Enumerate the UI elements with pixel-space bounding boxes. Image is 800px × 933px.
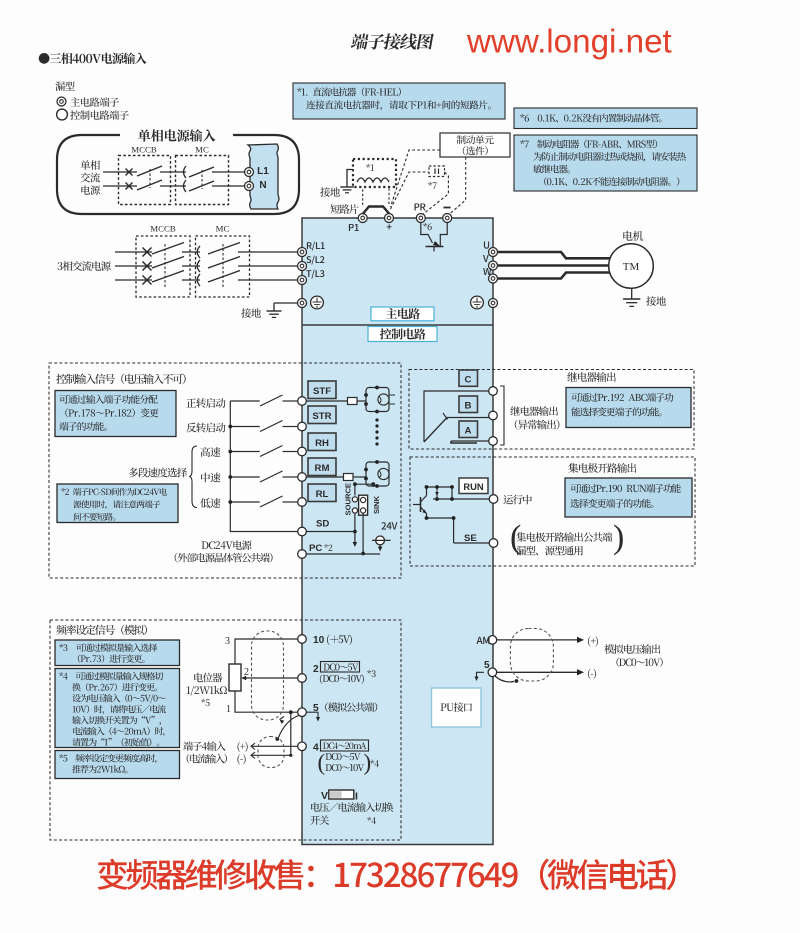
- svg-text:V: V: [321, 790, 328, 802]
- RM series resistor: [307, 476, 344, 478]
- svg-text:MCCB: MCCB: [131, 145, 157, 155]
- svg-text:L1: L1: [257, 166, 269, 177]
- label 继电器输出 section: [567, 372, 615, 382]
- terminal S/L2: [298, 262, 307, 271]
- relay output dashed box: [409, 370, 694, 450]
- relay A name box: [459, 421, 478, 438]
- PU port box: [432, 688, 482, 727]
- terminal STF: [298, 397, 307, 406]
- MC blade phase 1: [208, 243, 240, 255]
- label box 主电路: [371, 307, 434, 321]
- terminal strip L1/N: [248, 144, 279, 209]
- shield capsule 4-20mA cable: [258, 737, 284, 768]
- DC reactor *1 dashed box: [353, 159, 396, 187]
- svg-text:2: 2: [244, 667, 249, 678]
- label 接地 (reactor): [320, 187, 340, 197]
- svg-text:I: I: [355, 791, 358, 803]
- terminal V: [489, 261, 498, 270]
- terminal L1: [245, 168, 254, 177]
- svg-text:RH: RH: [315, 438, 329, 449]
- relay B name box: [459, 396, 478, 413]
- note box Pr.178-182: [55, 391, 176, 437]
- RUN collector wiring: [427, 487, 453, 496]
- terminal STR: [298, 422, 307, 431]
- wire terminal4 minus: [251, 752, 255, 759]
- terminal AM: [488, 636, 497, 645]
- motor TM: [609, 244, 654, 289]
- svg-text:A: A: [465, 426, 472, 437]
- arrow into box at 5: [477, 672, 485, 677]
- note *7 brake resistor: [514, 135, 697, 191]
- breaker contact X phase 3: [143, 276, 152, 285]
- switch blade 2: [260, 421, 283, 432]
- source/sink rail: [355, 483, 373, 485]
- ground symbol circle right: [471, 296, 484, 309]
- potentiometer: [229, 664, 241, 691]
- DC reactor winding: [357, 178, 389, 182]
- svg-text:STF: STF: [313, 386, 331, 397]
- MC contact line1: [184, 166, 187, 178]
- label DC24V电源: [202, 540, 252, 550]
- shield curve AM: [495, 676, 514, 682]
- dashed lead resistor to PR: [423, 172, 449, 215]
- label 3相交流电源: [57, 261, 110, 271]
- title 端子接线图: [350, 33, 434, 49]
- pot wiper wire: [244, 677, 298, 679]
- relay contact arm: [424, 418, 447, 443]
- terminal 4 input wires: [183, 741, 225, 751]
- terminal 4: [298, 742, 307, 751]
- switch wire 3: [230, 451, 259, 453]
- svg-text:PC: PC: [309, 543, 322, 554]
- ellipsis dots between optocouplers: [375, 418, 378, 421]
- svg-text:MCCB: MCCB: [150, 224, 176, 234]
- MC contact phase 3: [197, 274, 200, 286]
- motor ground: [631, 288, 633, 299]
- breaker blade phase 2: [152, 257, 184, 269]
- svg-text:MC: MC: [195, 145, 209, 155]
- relay B wire: [446, 417, 489, 419]
- reactor dashed leads to P1 and +: [362, 188, 364, 206]
- wire terminal4 plus: [251, 743, 255, 750]
- shield capsule AM cable: [510, 629, 553, 682]
- terminal PR: [416, 214, 425, 223]
- RL name box: [308, 484, 336, 502]
- label 接地 (motor): [646, 296, 666, 306]
- switch blade 3: [260, 446, 283, 457]
- open collector dashed box: [410, 457, 695, 566]
- legend main-circuit terminal symbol: [57, 97, 66, 106]
- MC box (single phase): [176, 156, 229, 205]
- STR name box: [308, 406, 336, 424]
- rail riser x373: [372, 484, 374, 487]
- brake resistor *7 dashed box: [429, 166, 445, 177]
- breaker blade phase 3: [152, 271, 184, 283]
- terminal N: [245, 182, 254, 191]
- svg-text:(: (: [318, 750, 326, 775]
- common wire vertical: [290, 712, 292, 755]
- switch wire 4: [230, 476, 259, 478]
- wire single-phase line1: [103, 171, 137, 173]
- terminal RM: [298, 473, 307, 482]
- divider main/control: [302, 324, 493, 326]
- jumper to 24V rail: [362, 513, 364, 554]
- switch blade 1: [260, 395, 283, 406]
- terminal RH: [298, 447, 307, 456]
- brake transistor *6: [423, 223, 432, 231]
- MC contact phase 1: [197, 246, 200, 258]
- breaker blade line2: [137, 180, 162, 190]
- svg-text:STR: STR: [312, 411, 331, 422]
- frequency setting dashed box: [50, 620, 401, 840]
- diode mark: [436, 487, 438, 499]
- zero volt arrow at terminal 5: [307, 712, 319, 718]
- RUN transistor: [420, 497, 422, 512]
- breaker link dashed (3 phase): [164, 244, 166, 287]
- terminal 5 output: [488, 668, 497, 677]
- wire W to motor: [498, 273, 611, 279]
- terminal SD: [298, 527, 307, 536]
- terminal PC: [298, 550, 307, 559]
- SE wire: [453, 539, 455, 543]
- MC blade phase 3: [208, 271, 240, 283]
- label 短路片: [330, 204, 358, 214]
- dashed lead + to resistor: [391, 172, 430, 209]
- terminal B: [489, 411, 498, 420]
- ground terminal right: [489, 299, 498, 308]
- MCCB box (single phase): [119, 156, 171, 205]
- label 外部电源晶体管公共端: [175, 553, 273, 563]
- terminal C: [489, 387, 498, 396]
- PC internal rail: [307, 553, 381, 555]
- control input dashed box: [49, 363, 401, 578]
- terminal 10: [298, 635, 307, 644]
- label 接地 (3 phase): [241, 308, 261, 318]
- reactor ground lead: [347, 170, 353, 188]
- svg-text:): ): [364, 750, 372, 775]
- terminal -: [443, 214, 452, 223]
- svg-text:5: 5: [484, 660, 490, 671]
- shield curve to terminal 5: [279, 716, 299, 738]
- brace for speed select: [189, 446, 197, 508]
- terminal T/L3: [298, 276, 307, 285]
- note *6 brake transistor: [514, 108, 697, 129]
- MCCB box (3 phase): [136, 236, 190, 297]
- switch blade 4: [260, 471, 283, 482]
- svg-text:SE: SE: [464, 533, 477, 544]
- single-phase enclosure: [57, 135, 299, 214]
- label 电机: [623, 231, 643, 241]
- label 反转启动: [186, 422, 225, 432]
- ground symbol (reactor): [340, 186, 354, 188]
- ground terminal left: [298, 299, 307, 308]
- note box Pr.192: [566, 388, 691, 428]
- breaker link dashed (single phase): [149, 169, 151, 188]
- label 单相电源输入: [138, 129, 215, 142]
- STF series resistor: [307, 400, 348, 402]
- legend control-circuit terminal symbol: [57, 109, 68, 120]
- svg-text:1: 1: [226, 704, 231, 715]
- svg-text:): ): [613, 519, 624, 556]
- terminal P1: [358, 214, 367, 223]
- relay common wire: [424, 391, 489, 442]
- label 电位器: [194, 673, 222, 683]
- breaker blade line1: [137, 166, 162, 176]
- RUN name box: [459, 478, 488, 494]
- label 控制输入信号: [56, 374, 185, 384]
- terminal A: [489, 437, 498, 446]
- optocoupler 1: [366, 388, 389, 412]
- bracket relay terminals: [500, 386, 504, 445]
- svg-text:3: 3: [225, 636, 230, 647]
- SD internal wire: [354, 513, 356, 543]
- note box *2 PC-SD: [57, 484, 178, 523]
- wire U to motor: [498, 252, 611, 258]
- ground symbol circle left: [311, 296, 324, 309]
- wire V to motor: [498, 264, 610, 267]
- RH name box: [308, 433, 336, 451]
- brake unit box 制动单元: [440, 133, 510, 157]
- svg-text:RUN: RUN: [463, 481, 484, 492]
- pot pin1 wire: [235, 691, 298, 712]
- ground wire (3 phase input): [274, 302, 298, 304]
- MC box (3 phase): [196, 236, 250, 297]
- ground symbol (3 phase): [273, 303, 275, 311]
- note box *5: [55, 751, 180, 779]
- dashed lead brake unit to -: [450, 157, 466, 214]
- wire phase 1: [115, 251, 152, 253]
- label 集电极开路输出 section: [568, 463, 636, 473]
- label 单相交流电源: [80, 160, 99, 170]
- MC link dashed (single phase): [201, 170, 203, 189]
- terminal RL: [298, 498, 307, 507]
- terminal +: [385, 214, 394, 223]
- svg-text:10: 10: [313, 635, 325, 646]
- note *1 DC reactor: [293, 83, 505, 119]
- breaker contact X (line2): [126, 183, 133, 190]
- label 中速: [201, 473, 220, 483]
- terminal 5: [298, 708, 307, 717]
- svg-text:RL: RL: [316, 489, 329, 500]
- wire phase 3: [115, 279, 152, 281]
- svg-text:B: B: [465, 401, 472, 412]
- terminal W: [489, 274, 498, 283]
- shield arrow to capsule: [280, 720, 285, 724]
- label 模拟电压输出: [604, 644, 660, 654]
- RUN emitter wiring: [427, 514, 454, 540]
- breaker contact X (line1): [126, 169, 133, 176]
- terminal RUN: [489, 495, 498, 504]
- 24V supply symbol: [381, 522, 397, 529]
- switch blade 5: [260, 496, 283, 507]
- wire single-phase line2: [103, 185, 137, 187]
- svg-text:C: C: [465, 375, 472, 386]
- sink/source jumper pins: [354, 484, 356, 495]
- AM wire -: [497, 671, 577, 673]
- MC blade phase 2: [208, 257, 240, 269]
- shield capsule pot cable: [252, 631, 284, 720]
- dashed lead brake unit to +: [391, 150, 441, 207]
- label 频率设定信号: [56, 625, 147, 635]
- terminal SE: [489, 539, 498, 548]
- label 多段速度选择: [129, 467, 187, 477]
- optocoupler 2: [366, 462, 389, 486]
- switch wire 5: [230, 501, 259, 503]
- AM wire +: [497, 639, 577, 641]
- label 电压/电流输入切换开关: [311, 802, 393, 812]
- jumper bar P1-+: [363, 207, 389, 215]
- terminal 2: [298, 674, 307, 683]
- svg-text:www.longi.net: www.longi.net: [466, 24, 672, 61]
- svg-text:SD: SD: [316, 519, 329, 530]
- legend 漏型: [55, 81, 74, 90]
- switch wire 1: [230, 400, 259, 402]
- breaker contact X phase 1: [143, 248, 152, 257]
- label 继电器输出 (异常输出): [510, 406, 558, 416]
- jumper connector block: [359, 495, 368, 515]
- relay A wire: [451, 440, 489, 442]
- input common bus: [230, 401, 297, 532]
- relay C name box: [459, 370, 478, 386]
- MC contact phase 2: [197, 260, 200, 272]
- svg-text:SOURCE: SOURCE: [344, 483, 353, 516]
- red bottom text: [97, 859, 675, 891]
- breaker contact X phase 2: [143, 262, 152, 271]
- RM name box: [308, 458, 336, 476]
- inverter main box: [302, 218, 493, 845]
- note box *4: [55, 669, 180, 748]
- note box Pr.190: [565, 478, 692, 517]
- label 高速: [201, 447, 221, 457]
- RUN wire: [433, 498, 489, 500]
- label box 控制电路: [368, 327, 437, 342]
- label 低速: [200, 498, 220, 508]
- STF name box: [308, 381, 336, 399]
- svg-text:N: N: [259, 180, 266, 191]
- pot pin3 wire: [235, 639, 298, 664]
- note box *3: [55, 640, 180, 666]
- label 运行中: [503, 495, 531, 505]
- heading 三相400V电源输入: [39, 53, 147, 65]
- terminal U: [489, 248, 498, 257]
- svg-text:RM: RM: [315, 463, 330, 474]
- terminal R/L1: [298, 248, 307, 257]
- switch wire 2: [230, 426, 259, 428]
- svg-text:SINK: SINK: [372, 495, 381, 514]
- svg-text:MC: MC: [216, 224, 230, 234]
- svg-text:TM: TM: [623, 261, 640, 273]
- wire phase 2: [115, 265, 152, 267]
- MC link dashed (3 phase): [222, 244, 224, 287]
- svg-text:2: 2: [313, 664, 319, 675]
- label 正转启动: [186, 398, 225, 408]
- MC contact line2: [184, 180, 187, 192]
- breaker blade phase 1: [152, 243, 184, 255]
